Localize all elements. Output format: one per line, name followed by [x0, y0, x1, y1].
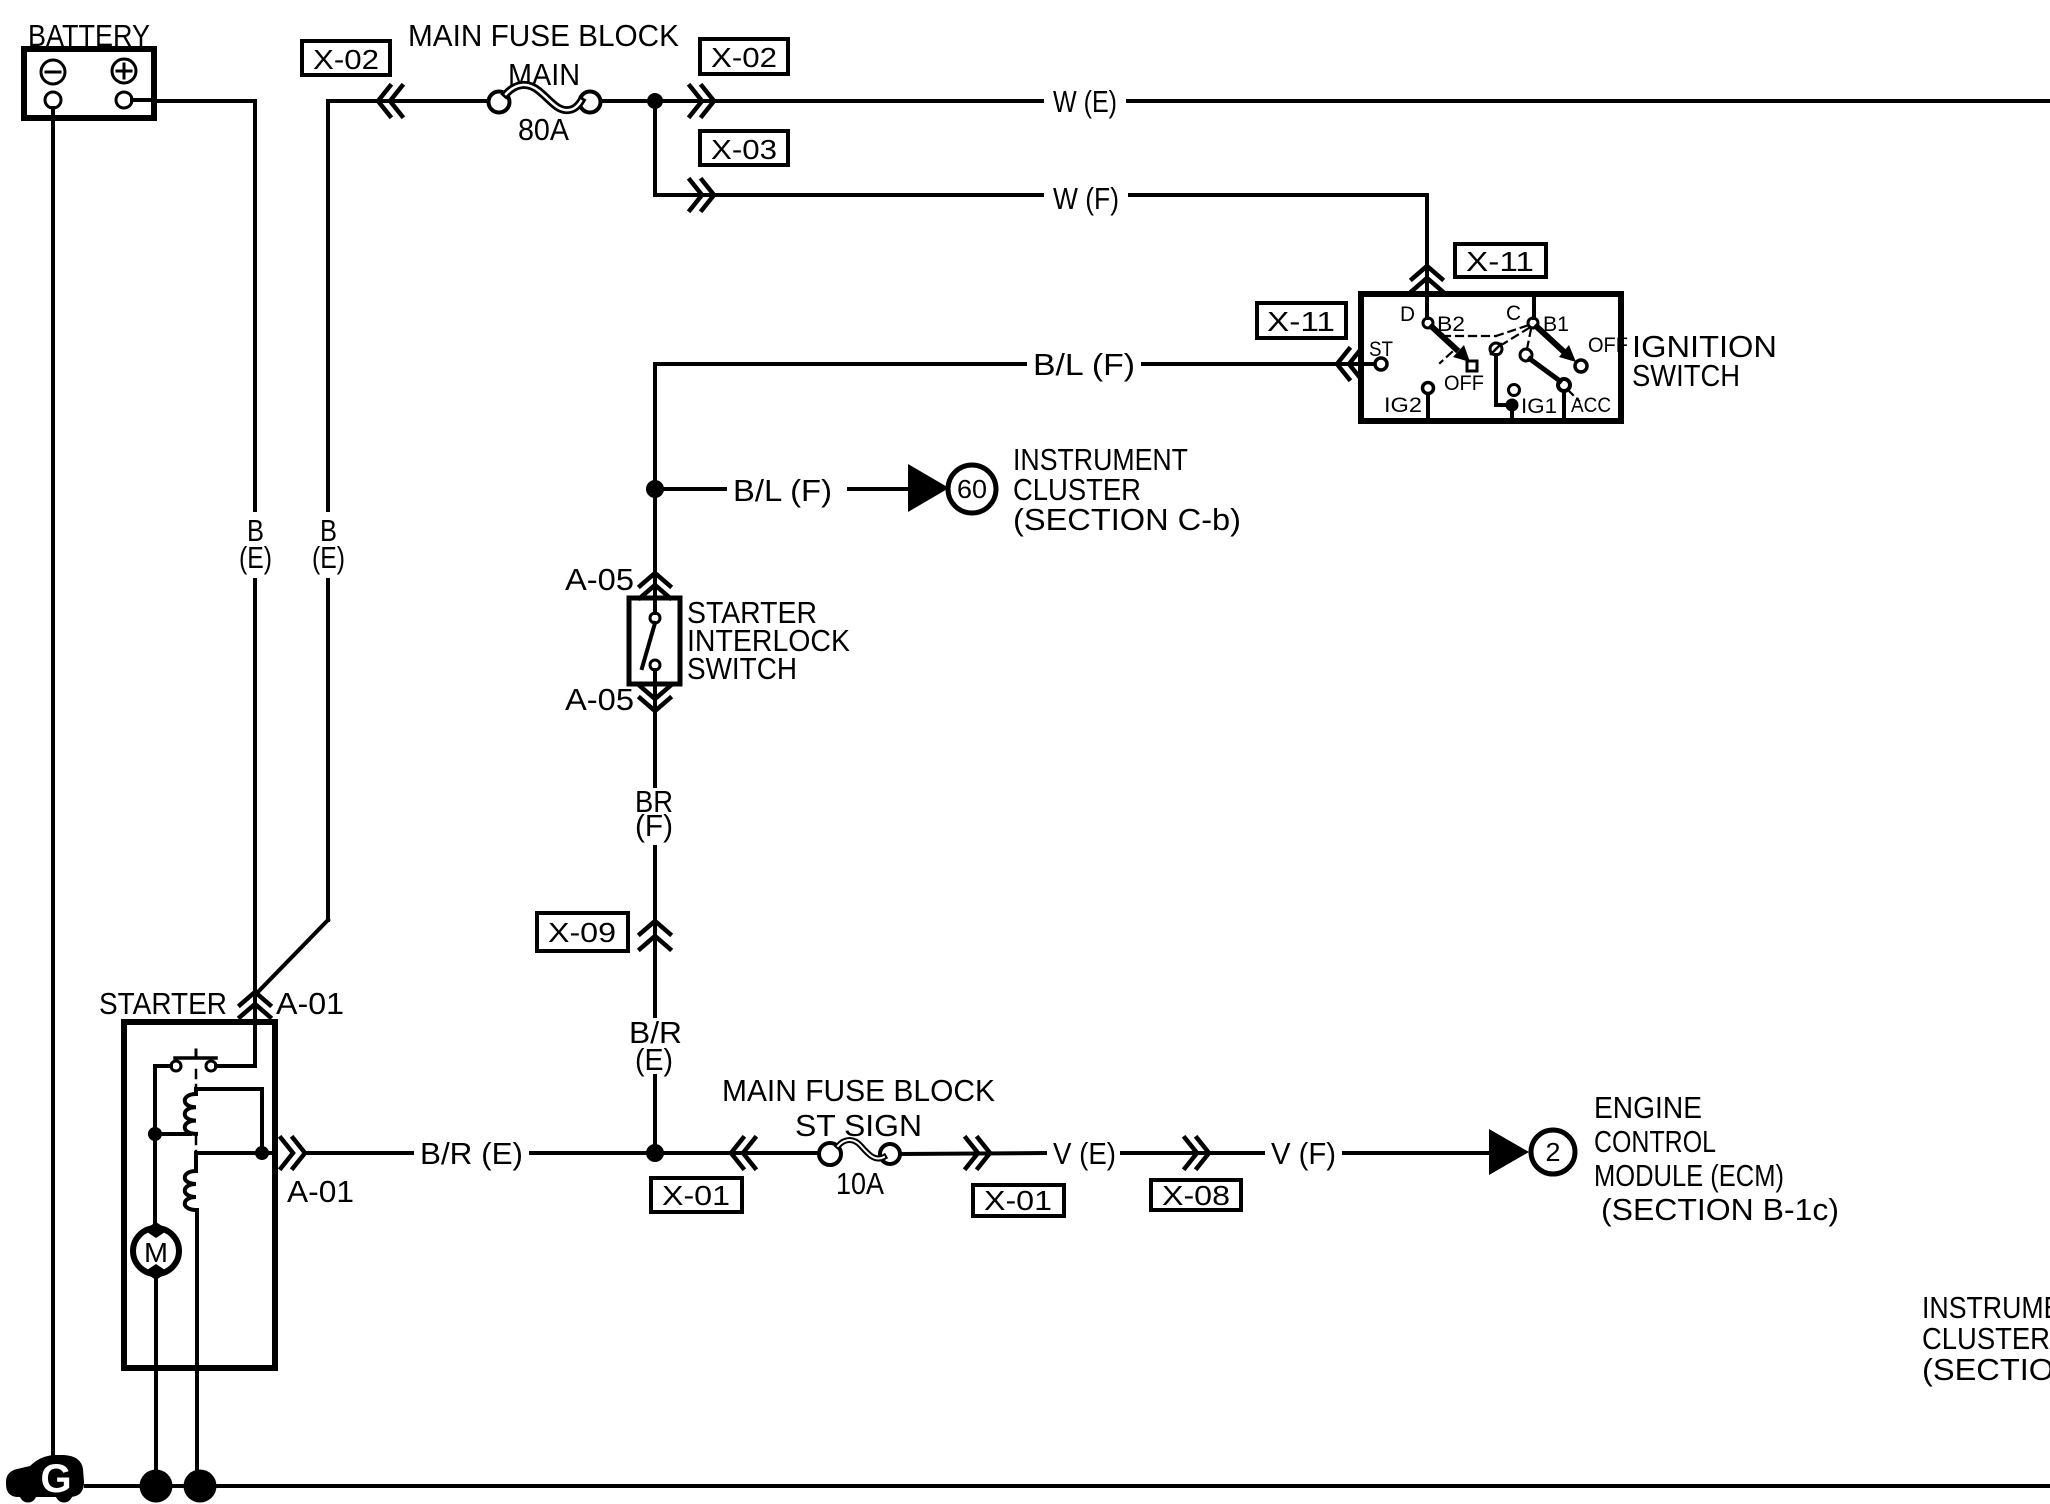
- connector X-11 label box top: [1455, 244, 1546, 277]
- node ground dot motor: [140, 1470, 173, 1503]
- svg-text:(F): (F): [635, 808, 673, 843]
- svg-text:INSTRUMENT: INSTRUMENT: [1922, 1290, 2050, 1325]
- connector chevron X-08 male: [1185, 1138, 1209, 1168]
- wire starter output: [196, 1151, 275, 1155]
- node B(E) label right: [312, 513, 345, 575]
- wire V(F) to ECM: [1344, 1151, 1489, 1155]
- node starter output junction: [255, 1146, 269, 1160]
- connector X-01 label box left: [651, 1178, 742, 1212]
- wire fuse to junction: [601, 99, 655, 103]
- svg-text:A-05: A-05: [565, 562, 634, 597]
- node solenoid junction: [148, 1127, 162, 1141]
- wire B/R(E) horizontal: [305, 1151, 412, 1155]
- starter box: [124, 1022, 275, 1368]
- svg-text:MAIN FUSE BLOCK: MAIN FUSE BLOCK: [408, 18, 679, 53]
- svg-text:(E): (E): [635, 1042, 673, 1077]
- starter solenoid contact: [171, 1022, 255, 1168]
- wire battery positive to starter (B E): [154, 101, 255, 510]
- connector chevron A-05 up: [640, 573, 670, 598]
- rotor arrow B1-OFF: [1537, 327, 1562, 350]
- connector chevron X-01 male: [966, 1138, 990, 1168]
- instrument cluster arrow: [908, 464, 949, 512]
- svg-text:SWITCH: SWITCH: [687, 651, 797, 686]
- node junction W(E): [647, 93, 663, 109]
- connector chevron X-01 female: [731, 1138, 755, 1168]
- node B(E) label left: [239, 513, 272, 575]
- wire motor to ground: [154, 1278, 158, 1486]
- connector X-02 label box left: [302, 41, 390, 75]
- svg-text:OFF: OFF: [1444, 372, 1484, 395]
- starter interlock switch labels: [687, 595, 850, 686]
- svg-text:B/L (F): B/L (F): [1033, 347, 1135, 382]
- node IG1 junction: [1506, 399, 1519, 412]
- ground bus wire: [86, 1484, 2050, 1488]
- ignition internals: [1361, 294, 1628, 421]
- connector chevron X-11 female: [1337, 349, 1361, 379]
- svg-text:X-11: X-11: [1466, 246, 1534, 277]
- terminal B1: [1528, 318, 1538, 328]
- svg-text:W (E): W (E): [1053, 84, 1117, 119]
- solenoid pull-in coil: [185, 1094, 196, 1134]
- svg-text:A-01: A-01: [287, 1174, 354, 1209]
- wire V(E) to X-08: [1122, 1151, 1263, 1155]
- svg-text:IG1: IG1: [1521, 395, 1557, 418]
- svg-text:D: D: [1400, 303, 1415, 326]
- svg-text:M: M: [144, 1237, 168, 1268]
- fuse ST SIGN 10A: [795, 1108, 922, 1201]
- svg-text:B/R (E): B/R (E): [420, 1136, 523, 1171]
- svg-text:OFF: OFF: [1588, 334, 1628, 357]
- ECM arrow: [1489, 1129, 1529, 1175]
- svg-text:V (E): V (E): [1053, 1136, 1116, 1171]
- svg-text:ST: ST: [1369, 338, 1393, 361]
- svg-text:X-02: X-02: [313, 44, 379, 75]
- wire W(E) to right edge: [655, 99, 1042, 103]
- connector chevron X-02 female: [378, 86, 402, 116]
- wire diagonal into starter A-01: [255, 920, 328, 995]
- connector chevron X-03 male: [690, 180, 714, 210]
- svg-text:X-02: X-02: [711, 42, 777, 73]
- ignition switch labels: [1632, 329, 1777, 393]
- svg-text:80A: 80A: [518, 112, 569, 147]
- ignition switch box: [1361, 294, 1621, 421]
- svg-text:X-11: X-11: [1267, 306, 1335, 337]
- svg-text:(SECTION C-b): (SECTION C-b): [1013, 502, 1241, 537]
- solenoid hold coil: [194, 1153, 198, 1171]
- svg-text:V (F): V (F): [1271, 1136, 1336, 1171]
- connector chevron X-02 male: [690, 86, 714, 116]
- wire B/L(F) from junction to ignition ST: [655, 362, 1025, 366]
- svg-text:2: 2: [1546, 1137, 1561, 1167]
- wire B/L(F) junction down: [653, 364, 657, 613]
- connector X-01 label box right: [973, 1185, 1064, 1216]
- connector chevron X-09: [640, 921, 670, 949]
- node junction B/L(F): [646, 480, 664, 498]
- svg-text:X-08: X-08: [1162, 1180, 1230, 1211]
- svg-text:ACC: ACC: [1571, 394, 1611, 417]
- svg-text:CONTROL: CONTROL: [1594, 1124, 1716, 1159]
- wire junction down to W(F): [655, 101, 1042, 195]
- svg-text:(E): (E): [239, 540, 272, 575]
- battery: [24, 49, 154, 118]
- svg-text:A-05: A-05: [565, 682, 634, 717]
- svg-text:MAIN FUSE BLOCK: MAIN FUSE BLOCK: [722, 1073, 995, 1108]
- ground symbol G: [6, 1455, 84, 1503]
- connector X-09 label box: [537, 913, 628, 951]
- svg-text:W (F): W (F): [1053, 181, 1119, 216]
- connector chevron X-11 up: [1412, 266, 1442, 291]
- svg-text:(SECTION B-1c): (SECTION B-1c): [1601, 1192, 1839, 1227]
- connector X-02 label box right: [700, 39, 788, 74]
- wire battery negative to ground: [51, 118, 55, 1458]
- wire fuse to V(E): [900, 1153, 1045, 1154]
- svg-text:60: 60: [957, 474, 987, 504]
- connector X-11 label box left: [1257, 303, 1346, 338]
- wire branch to instrument cluster: [655, 487, 725, 491]
- fuse MAIN 80A: [489, 57, 601, 147]
- svg-text:10A: 10A: [836, 1166, 884, 1201]
- node main line junction: [646, 1144, 664, 1162]
- wire junction to fuse: [655, 1151, 819, 1155]
- svg-text:X-01: X-01: [984, 1185, 1052, 1216]
- wire X-02 branch down (B E): [326, 101, 330, 510]
- svg-text:MODULE (ECM): MODULE (ECM): [1594, 1158, 1784, 1193]
- svg-text:C: C: [1506, 302, 1521, 325]
- connector chevron A-01 right: [281, 1138, 305, 1168]
- mechanical link dashes: [1440, 325, 1579, 401]
- wire into B1: [1532, 294, 1536, 318]
- svg-text:X-03: X-03: [711, 134, 777, 165]
- rotor arrow B2-OFF: [1432, 327, 1456, 349]
- connector chevron A-01 up: [240, 992, 270, 1017]
- svg-text:A-01: A-01: [276, 986, 344, 1021]
- ECM labels: [1594, 1090, 1839, 1227]
- svg-text:X-01: X-01: [662, 1180, 730, 1211]
- svg-text:(E): (E): [312, 540, 345, 575]
- svg-text:B/L (F): B/L (F): [733, 473, 832, 508]
- wire W(F) down to ignition switch: [1425, 195, 1429, 294]
- starter motor M: [133, 1222, 179, 1280]
- connector X-08 label box: [1151, 1180, 1241, 1211]
- wire coil2 to ground: [195, 1210, 199, 1486]
- instrument cluster labels clipped right: [1922, 1290, 2050, 1387]
- wire coil1 to B/R junction: [196, 1089, 262, 1153]
- terminal B2: [1423, 318, 1433, 328]
- node BR (F) label: [635, 784, 673, 843]
- node ground dot coil: [184, 1470, 217, 1503]
- terminal IG2: [1423, 383, 1434, 394]
- svg-text:X-09: X-09: [548, 917, 616, 948]
- svg-text:SWITCH: SWITCH: [1632, 358, 1740, 393]
- wire BR(F) down: [653, 847, 657, 1016]
- instrument cluster pin 60: [948, 465, 996, 513]
- wire into B2: [1425, 294, 1429, 318]
- svg-text:G: G: [40, 1457, 71, 1501]
- wire junction to coil1: [155, 1132, 190, 1136]
- wire B/R(E) down to main line: [653, 1076, 657, 1153]
- starter interlock switch: [629, 598, 680, 786]
- svg-text:(SECTION C-b): (SECTION C-b): [1922, 1352, 2050, 1387]
- contact ACC arm: [1520, 349, 1532, 361]
- wire to main fuse: [328, 99, 488, 103]
- connector chevron A-05 down: [640, 686, 670, 711]
- contact mid circle: [1490, 343, 1502, 355]
- connector X-03 label box: [700, 131, 788, 165]
- svg-text:CLUSTER: CLUSTER: [1922, 1321, 2050, 1356]
- svg-text:STARTER: STARTER: [99, 986, 227, 1021]
- instrument cluster labels: [1013, 442, 1241, 537]
- svg-text:ST SIGN: ST SIGN: [795, 1108, 922, 1143]
- svg-text:ENGINE: ENGINE: [1594, 1090, 1702, 1125]
- node B/R (E) label vertical: [629, 1015, 682, 1077]
- terminal ST: [1361, 362, 1374, 366]
- svg-text:IG2: IG2: [1384, 394, 1422, 417]
- wire mid to IG1: [1496, 355, 1506, 405]
- ECM pin 2: [1531, 1130, 1575, 1174]
- wire junction to motor: [153, 1134, 157, 1224]
- wire contact to motor branch: [155, 1066, 171, 1134]
